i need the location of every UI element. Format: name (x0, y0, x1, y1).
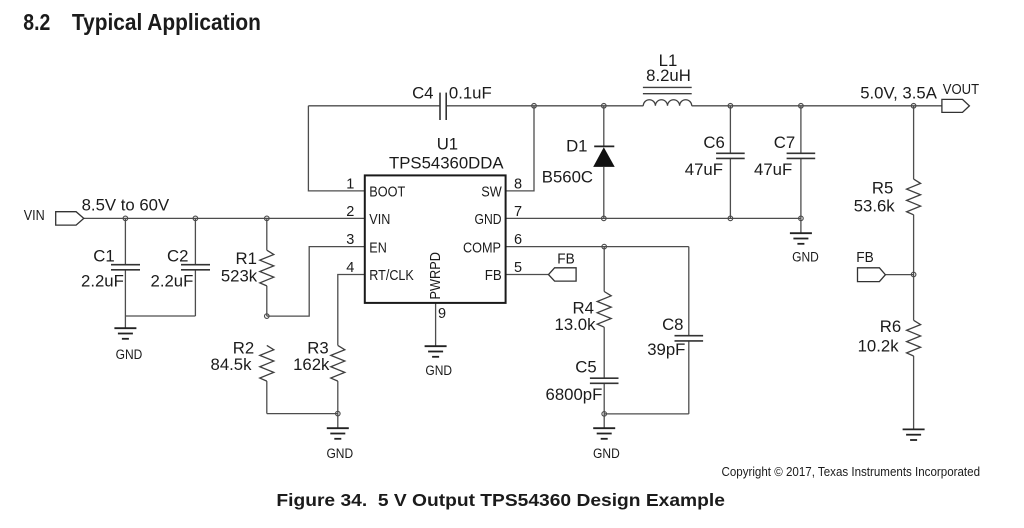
resistor R3 (331, 345, 345, 381)
wire: FB stub pin 5 (506, 274, 549, 276)
wire: D1 anode stem (603, 167, 605, 219)
svg-text:FB: FB (485, 268, 502, 284)
wire: R5 to FB node (913, 215, 915, 321)
capacitor C5 plates (590, 377, 619, 379)
inductor L1 core bars (643, 87, 692, 93)
svg-text:GND: GND (475, 212, 502, 228)
net port FB at divider (858, 268, 886, 282)
wire: R2-R3 bottom link (267, 413, 338, 415)
resistor R2 (260, 345, 274, 381)
wire: EN link pin 3 (267, 247, 365, 317)
wire: RT/CLK link pin 4 (338, 275, 365, 346)
wire: C2 bottom stem (194, 270, 196, 316)
resistor R6 (907, 320, 921, 356)
svg-text:C1: C1 (93, 247, 114, 266)
svg-text:C7: C7 (774, 133, 795, 152)
svg-text:FB: FB (856, 250, 874, 266)
wire: C6 top stem (729, 106, 731, 154)
svg-text:R1: R1 (235, 249, 256, 268)
svg-text:R6: R6 (880, 317, 901, 336)
svg-text:C8: C8 (662, 315, 683, 334)
net port FB at pin 5 (549, 268, 577, 281)
svg-text:BOOT: BOOT (369, 185, 405, 201)
junction C5/C8 bottom (602, 412, 607, 417)
capacitor C7 plates (787, 152, 816, 154)
svg-text:7: 7 (514, 204, 522, 220)
svg-text:C5: C5 (575, 357, 596, 376)
wire: C7 bottom stem (800, 158, 802, 218)
capacitor C8 plates (675, 335, 704, 337)
wire: R3 ground stem (337, 414, 339, 428)
wire: FB link (885, 274, 913, 276)
svg-text:GND: GND (425, 363, 452, 379)
svg-text:PWRPD: PWRPD (428, 252, 444, 300)
wire: BOOT riser left (308, 106, 364, 191)
svg-text:GND: GND (116, 347, 143, 363)
capacitor C6 plates (716, 152, 745, 154)
junction R4/COMP (602, 244, 607, 249)
op-amp U1 body box TPS54360DDA (365, 175, 506, 303)
wire: C5-C8 bottom link (604, 413, 689, 415)
net port VOUT (942, 99, 970, 112)
wire: COMP net pin 6 (506, 246, 689, 248)
junction R3/ground (336, 411, 341, 416)
wire: D1 cathode stem (603, 106, 605, 147)
junction SW riser/top bus (532, 104, 537, 109)
wire: C1 top stem (124, 218, 126, 264)
wire: R1 bottom stem (266, 286, 268, 316)
svg-text:VIN: VIN (24, 208, 45, 224)
wire: C5 ground stem (603, 414, 605, 428)
svg-text:2: 2 (346, 204, 354, 220)
svg-text:EN: EN (369, 240, 387, 256)
svg-text:TPS54360DDA: TPS54360DDA (389, 154, 504, 173)
junction C2/VIN (193, 216, 198, 221)
wire: R2 bottom stem (266, 381, 268, 414)
wire: C1 bottom stem (124, 270, 126, 316)
junction FB/R5/R6 (911, 272, 916, 277)
resistor R5 (907, 179, 921, 215)
ground symbol below C7 (790, 233, 812, 244)
svg-text:C6: C6 (703, 133, 724, 152)
svg-text:47uF: 47uF (685, 160, 723, 179)
ground symbol below C1 (114, 328, 136, 339)
capacitor C2 plates (181, 264, 210, 266)
svg-text:5: 5 (514, 260, 522, 276)
svg-text:8: 8 (514, 176, 522, 192)
svg-text:2.2uF: 2.2uF (81, 272, 124, 291)
svg-text:523k: 523k (221, 266, 258, 285)
capacitor C1 plates (111, 264, 140, 266)
svg-text:RT/CLK: RT/CLK (369, 268, 414, 284)
svg-text:VIN: VIN (369, 212, 390, 228)
capacitor C4 plates (439, 93, 441, 120)
svg-text:Figure 34. 5 V Output TPS5436: Figure 34. 5 V Output TPS54360 Design Ex… (276, 490, 725, 510)
diode D1 (593, 146, 615, 167)
svg-text:47uF: 47uF (754, 160, 792, 179)
net port VIN (56, 212, 84, 225)
wire: R1 top stem (266, 218, 268, 250)
inductor L1 coil (643, 100, 691, 106)
svg-text:39pF: 39pF (647, 340, 685, 359)
ground symbol below R6 (903, 429, 925, 440)
svg-text:SW: SW (481, 185, 502, 201)
resistor R4 (597, 292, 611, 328)
junction C7 bottom (799, 216, 804, 221)
wire: C1-C2 bottom link (125, 315, 195, 317)
junction R1/R2/EN (265, 314, 270, 319)
svg-text:6800pF: 6800pF (546, 385, 603, 404)
svg-text:8.5V to 60V: 8.5V to 60V (82, 195, 170, 214)
wire: R4 to C5 stem (603, 327, 605, 378)
svg-text:4: 4 (346, 260, 354, 276)
svg-text:10.2k: 10.2k (858, 336, 900, 355)
svg-text:COMP: COMP (463, 240, 501, 256)
ground symbol below R3 (327, 428, 349, 439)
svg-text:8.2uH: 8.2uH (646, 66, 691, 85)
svg-text:Typical Application: Typical Application (72, 9, 261, 35)
wire: C5 bottom stem (603, 383, 605, 414)
junction C6 bottom (728, 216, 733, 221)
wire: SW riser pin 8 (506, 106, 534, 191)
svg-text:R5: R5 (872, 178, 893, 197)
junction R1/VIN (265, 216, 270, 221)
svg-text:D1: D1 (566, 137, 587, 156)
wire: pin 9 to ground (435, 303, 437, 346)
wire: C7 ground stem (800, 218, 802, 232)
svg-text:5.0V, 3.5A: 5.0V, 3.5A (860, 83, 938, 102)
svg-text:2.2uF: 2.2uF (151, 272, 194, 291)
svg-text:53.6k: 53.6k (854, 197, 896, 216)
svg-text:84.5k: 84.5k (211, 355, 253, 374)
svg-text:FB: FB (557, 252, 575, 268)
svg-text:GND: GND (326, 446, 353, 462)
svg-text:1: 1 (346, 176, 354, 192)
wire: C2 top stem (194, 218, 196, 264)
svg-text:3: 3 (346, 232, 354, 248)
svg-text:162k: 162k (293, 355, 330, 374)
svg-text:C4: C4 (412, 84, 433, 103)
junction D1 bottom (602, 216, 607, 221)
wire: R6 bottom stem (913, 356, 915, 429)
ground symbol below C5 (593, 428, 615, 439)
ground symbol below pin 9 (425, 346, 447, 357)
wire: C7 top stem (800, 106, 802, 154)
svg-text:Copyright © 2017, Texas Instru: Copyright © 2017, Texas Instruments Inco… (722, 464, 981, 479)
wire: C1 ground stem (124, 316, 126, 328)
junction C6 top (728, 104, 733, 109)
svg-text:GND: GND (593, 446, 620, 462)
wire: top bus left of C4 (308, 105, 440, 107)
resistor R1 (260, 250, 274, 286)
wire: GND net pin 7 (506, 217, 801, 219)
junction C7 top (799, 104, 804, 109)
wire: top bus L1 to VOUT (692, 105, 942, 107)
junction VOUT/R5 (911, 104, 916, 109)
svg-text:0.1uF: 0.1uF (449, 83, 492, 102)
svg-text:8.2: 8.2 (23, 9, 50, 35)
svg-text:9: 9 (438, 306, 446, 322)
junction C1/VIN (123, 216, 128, 221)
svg-text:13.0k: 13.0k (555, 315, 597, 334)
svg-text:C2: C2 (167, 247, 188, 266)
svg-text:U1: U1 (437, 135, 458, 154)
wire: top bus C4 to L1 (446, 105, 643, 107)
svg-text:VOUT: VOUT (943, 82, 979, 98)
wire: R3 bottom stem (337, 381, 339, 414)
junction D1 top (602, 104, 607, 109)
wire: R4 top stem (603, 247, 605, 292)
wire: C8 top stem (688, 247, 690, 336)
svg-text:B560C: B560C (542, 167, 593, 186)
svg-text:GND: GND (792, 250, 819, 266)
svg-text:6: 6 (514, 232, 522, 248)
wire: R5 top stem (913, 106, 915, 179)
wire: C8 bottom stem (688, 341, 690, 414)
wire: C6 bottom stem (729, 158, 731, 218)
wire: VIN bus to pin 2 (84, 217, 365, 219)
